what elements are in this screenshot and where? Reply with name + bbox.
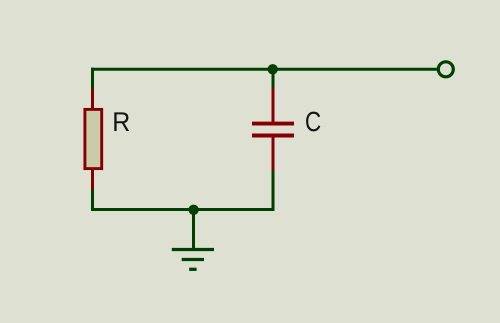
wire capacitor branch top (junction down to capacitor pin): [272, 68, 275, 89]
label R: [114, 112, 129, 131]
wire left vertical (top corner down to resistor pin): [91, 68, 94, 90]
resistor R top pin: [91, 89, 94, 109]
ground bar 2: [182, 258, 204, 261]
ground bar 1: [172, 248, 214, 251]
wire capacitor branch bottom (capacitor pin down to bottom wire): [272, 170, 275, 212]
ground bar 3: [189, 268, 196, 271]
wire left vertical (resistor pin down to bottom corner): [91, 189, 94, 212]
node junction dot top: [268, 64, 278, 74]
ground stem wire: [192, 210, 195, 250]
resistor R bottom pin: [91, 169, 94, 190]
capacitor C bottom pin: [272, 137, 275, 171]
terminal OUT circle: [438, 62, 453, 77]
capacitor C top pin: [272, 88, 275, 122]
capacitor C bottom plate: [252, 134, 294, 138]
wire top horizontal from left corner to terminal: [91, 68, 438, 71]
capacitor C top plate: [252, 122, 294, 126]
label C: [306, 112, 320, 132]
node junction dot bottom: [188, 205, 198, 215]
resistor R body: [85, 109, 102, 168]
wire bottom horizontal: [91, 208, 275, 211]
